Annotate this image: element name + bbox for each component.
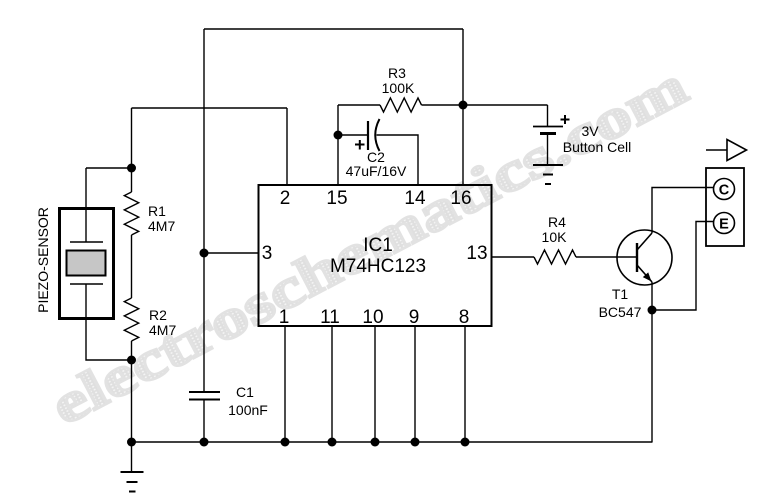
svg-text:14: 14 <box>404 188 426 209</box>
wire R2 junction to rail <box>131 360 133 442</box>
svg-text:C: C <box>719 183 730 199</box>
IC U1 IC1 M74HC123 <box>259 185 492 328</box>
wire pin 13 <box>492 256 534 258</box>
wire pin 15 vertical <box>337 105 339 184</box>
wire between R1 and R2 <box>131 235 133 298</box>
svg-text:1: 1 <box>279 307 290 328</box>
transistor T1 BC547 <box>599 230 672 320</box>
wire piezo bottom branch <box>86 320 132 360</box>
node rail left <box>127 438 136 447</box>
wire left vertical from top to pin3 node <box>203 29 205 253</box>
wire piezo top branch <box>86 167 132 169</box>
node rail C1 <box>200 438 209 447</box>
wire R1 top vertical <box>131 108 133 168</box>
resistor R3 100K <box>338 65 463 112</box>
ground battery <box>533 165 563 184</box>
svg-text:10: 10 <box>362 307 383 328</box>
wire emitter to rail <box>651 310 653 442</box>
svg-text:R1: R1 <box>148 203 166 219</box>
svg-text:11: 11 <box>320 307 340 328</box>
node R3-battery-pin16 <box>459 101 468 110</box>
node piezo-R1 junction <box>127 164 136 173</box>
node rail pin 8 <box>461 438 470 447</box>
svg-text:3: 3 <box>262 243 273 264</box>
svg-text:T1: T1 <box>612 286 629 302</box>
svg-text:16: 16 <box>450 188 471 209</box>
connector output C E <box>706 168 744 246</box>
node rail pin 11 <box>328 438 337 447</box>
wire bottom rail <box>132 441 653 443</box>
wire pin 2 <box>286 108 288 184</box>
resistor R2 4M7 <box>124 298 176 360</box>
svg-text:9: 9 <box>409 307 420 328</box>
svg-text:3V: 3V <box>581 123 599 139</box>
capacitor C1 100nF <box>189 384 268 442</box>
battery B1 3V button cell <box>533 105 631 164</box>
svg-text:100K: 100K <box>382 80 415 96</box>
wire pin 11 <box>331 326 333 442</box>
wire emitter <box>651 282 653 310</box>
svg-text:4M7: 4M7 <box>148 218 175 234</box>
wire top loop horizontal <box>204 28 463 30</box>
capacitor C2 47uF/16V <box>338 119 407 179</box>
wire pin 3 <box>204 252 258 254</box>
wire collector <box>652 188 714 234</box>
svg-text:R3: R3 <box>388 65 406 81</box>
wire pin3 node down to C1 <box>203 253 205 392</box>
wire pin 9 <box>414 326 416 442</box>
svg-text:4M7: 4M7 <box>149 322 176 338</box>
wire pin 10 <box>374 326 376 442</box>
wire right vertical to pin 16 <box>462 29 464 184</box>
wire R4 to base <box>576 256 637 258</box>
svg-text:IC1: IC1 <box>363 235 393 256</box>
svg-text:BC547: BC547 <box>599 304 642 320</box>
resistor R4 10K <box>534 214 576 264</box>
node rail pin 10 <box>371 438 380 447</box>
svg-text:13: 13 <box>466 243 487 264</box>
svg-text:M74HC123: M74HC123 <box>330 256 426 277</box>
piezo sensor PIEZO-SENSOR <box>35 168 114 320</box>
svg-text:10K: 10K <box>542 229 568 245</box>
node rail pin 1 <box>281 438 290 447</box>
arrow output symbol <box>706 140 747 161</box>
wire node to battery <box>463 104 548 106</box>
svg-text:2: 2 <box>280 188 291 209</box>
node R2-piezo bottom junction <box>127 356 136 365</box>
svg-text:8: 8 <box>459 307 470 328</box>
svg-text:R4: R4 <box>548 214 566 230</box>
svg-text:PIEZO-SENSOR: PIEZO-SENSOR <box>35 207 51 313</box>
node pin 3 junction <box>200 249 209 258</box>
wire pin 14 <box>377 135 419 184</box>
node rail pin 9 <box>411 438 420 447</box>
svg-text:Button Cell: Button Cell <box>563 139 631 155</box>
ground main <box>121 442 144 492</box>
svg-text:E: E <box>719 217 729 233</box>
wire pin 1 <box>284 326 286 442</box>
svg-text:R2: R2 <box>149 307 167 323</box>
node C2-pin15 <box>334 131 343 140</box>
wire pin 8 <box>464 326 466 442</box>
svg-text:47uF/16V: 47uF/16V <box>346 163 407 179</box>
resistor R1 4M7 <box>124 168 175 235</box>
wire to pin 2 horizontal <box>132 107 288 109</box>
svg-text:15: 15 <box>326 188 347 209</box>
node emitter junction <box>648 306 657 315</box>
svg-text:100nF: 100nF <box>228 402 268 418</box>
wire emitter to E terminal <box>652 222 714 311</box>
svg-text:C1: C1 <box>236 384 254 400</box>
